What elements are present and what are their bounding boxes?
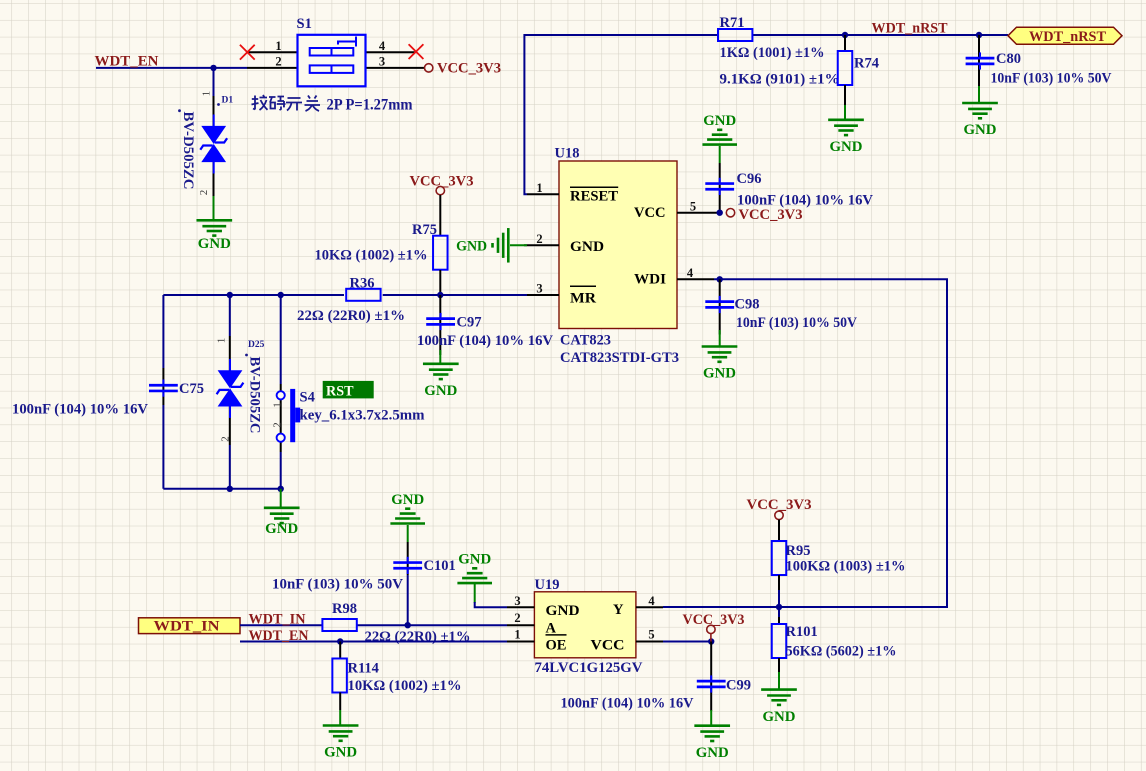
IC U19 body: [534, 592, 636, 658]
junction at D25 top row: [227, 292, 233, 298]
S1 actuator: [338, 37, 356, 47]
svg-text:C101: C101: [424, 558, 456, 574]
svg-text:R114: R114: [348, 660, 379, 676]
resistor R75: [439, 195, 441, 236]
power port VCC_3V3 at U18 VCC: [726, 209, 734, 217]
ground below R114: [339, 710, 341, 725]
svg-text:C97: C97: [457, 315, 482, 331]
net label RST (green box): [323, 381, 374, 399]
key switch S4 plunger: [290, 389, 295, 442]
junction at C101 bottom: [405, 622, 411, 628]
svg-text:100nF (104) 10% 16V: 100nF (104) 10% 16V: [12, 402, 149, 418]
svg-text:2: 2: [272, 422, 284, 428]
svg-text:WDT_EN: WDT_EN: [95, 54, 160, 70]
resistor R71: [718, 29, 752, 41]
ground below C80: [978, 86, 980, 103]
switch S1 body: [298, 35, 366, 87]
junction at WDT_EN/D1: [210, 65, 216, 71]
wire WDT_EN horizontal: [96, 67, 247, 69]
svg-text:9.1KΩ (9101) ±1%: 9.1KΩ (9101) ±1%: [720, 71, 840, 87]
capacitor C96: [705, 178, 734, 195]
svg-text:22Ω (22R0) ±1%: 22Ω (22R0) ±1%: [297, 308, 405, 324]
U18 pin4 WDI: [677, 278, 714, 280]
left rail with C75: [162, 295, 164, 368]
U18 pin1 RESET: [527, 193, 559, 195]
diode D1 pin 1 lead: [213, 96, 215, 126]
ground below R101: [778, 672, 780, 689]
svg-text:74LVC1G125GV: 74LVC1G125GV: [535, 660, 644, 676]
svg-text:D25: D25: [248, 340, 265, 350]
svg-text:GND: GND: [546, 603, 580, 619]
svg-text:BV-D505ZC: BV-D505ZC: [180, 112, 196, 190]
key switch S4 contact 2: [277, 434, 285, 442]
junction at S4 top row: [278, 292, 284, 298]
key switch S4 contact 1: [277, 391, 285, 399]
S1 slider 2: [310, 65, 354, 73]
S4 rail: [280, 295, 282, 384]
svg-text:RST: RST: [326, 384, 354, 400]
IC U18 body: [559, 161, 677, 329]
svg-text:10KΩ (1002) ±1%: 10KΩ (1002) ±1%: [348, 678, 462, 694]
svg-text:Y: Y: [613, 602, 624, 618]
svg-text:RESET: RESET: [570, 189, 618, 205]
ground above C101: [390, 492, 425, 524]
svg-text:100KΩ (1003) ±1%: 100KΩ (1003) ±1%: [786, 558, 906, 574]
svg-text:5: 5: [690, 199, 696, 213]
S1 caption chinese 拨码开关: [252, 95, 321, 111]
svg-text:GND: GND: [570, 239, 604, 255]
capacitor C99: [710, 642, 712, 712]
svg-text:4: 4: [687, 266, 694, 280]
wire D1 to ground: [213, 196, 215, 220]
resistor R74: [844, 35, 846, 51]
svg-text:R95: R95: [786, 543, 811, 559]
wire R71 right to port: [752, 34, 1008, 36]
resistor R98: [322, 619, 356, 631]
svg-text:MR: MR: [570, 291, 597, 307]
bottom wire of MR branch: [163, 488, 280, 490]
resistor R36: [346, 289, 380, 301]
svg-text:1: 1: [514, 628, 520, 642]
svg-text:R98: R98: [332, 601, 357, 617]
svg-text:2: 2: [219, 436, 231, 442]
svg-text:56KΩ (5602) ±1%: 56KΩ (5602) ±1%: [786, 643, 897, 659]
junction at C80: [976, 32, 982, 38]
svg-text:D1: D1: [222, 96, 234, 106]
junction at R114: [337, 638, 343, 644]
svg-text:U18: U18: [555, 146, 580, 162]
svg-text:1: 1: [216, 338, 228, 344]
diode D1 pin 2 lead: [213, 162, 215, 198]
ground at U18 pin2: [510, 244, 527, 246]
svg-text:OE: OE: [546, 638, 567, 654]
svg-text:R101: R101: [786, 624, 818, 640]
junction R75/C97 at MR row: [437, 292, 443, 298]
svg-text:R75: R75: [412, 222, 437, 238]
TVS diode D1: [200, 115, 227, 174]
junction at U18 WDI: [717, 276, 723, 282]
wire WDI long right and down to divider: [663, 279, 947, 607]
U18 pin3 MR: [527, 294, 559, 296]
capacitor C75: [149, 380, 178, 397]
ground below R74: [828, 120, 864, 155]
wire to D1: [213, 68, 215, 96]
resistor R101: [778, 607, 780, 617]
svg-text:2: 2: [198, 190, 210, 196]
svg-text:C99: C99: [726, 678, 751, 694]
U18 pin2 GND: [524, 244, 559, 246]
svg-text:R71: R71: [720, 15, 745, 31]
svg-text:WDT_EN: WDT_EN: [249, 628, 310, 644]
wire row MR net: [163, 294, 344, 296]
no-ERC cross on S1 pin1: [240, 45, 255, 60]
svg-text:R36: R36: [350, 276, 375, 292]
svg-text:2P P=1.27mm: 2P P=1.27mm: [327, 96, 413, 113]
svg-text:VCC: VCC: [591, 638, 625, 654]
ground below C99: [710, 710, 712, 725]
capacitor C101: [407, 525, 409, 542]
svg-text:2: 2: [536, 232, 542, 246]
svg-text:1: 1: [200, 91, 212, 97]
switch S1 pin4 lead: [366, 51, 415, 53]
svg-text:4: 4: [379, 39, 386, 53]
capacitor C97: [439, 295, 441, 355]
svg-text:C96: C96: [737, 171, 762, 187]
C96 lead from ground: [719, 146, 721, 163]
ground below C98: [719, 330, 721, 346]
svg-text:GND: GND: [198, 236, 231, 252]
svg-text:4: 4: [648, 594, 655, 608]
port WDT_nRST: [1008, 27, 1122, 44]
R74 lead to ground: [844, 85, 846, 105]
switch S1 pin2 lead: [247, 67, 298, 69]
power port VCC_3V3 at S1 pin3: [425, 64, 433, 72]
svg-text:S1: S1: [297, 16, 312, 32]
svg-text:WDT_nRST: WDT_nRST: [872, 20, 948, 36]
svg-text:VCC_3V3: VCC_3V3: [739, 207, 803, 223]
ground above U19 pin3: [457, 551, 492, 583]
svg-text:10nF (103) 10% 50V: 10nF (103) 10% 50V: [736, 315, 857, 331]
junction bottom D25: [227, 486, 233, 492]
svg-text:CAT823STDI-GT3: CAT823STDI-GT3: [560, 350, 679, 366]
wire WDT_IN row: [240, 624, 322, 626]
svg-text:WDI: WDI: [634, 271, 666, 287]
resistor R95: [778, 520, 780, 542]
svg-text:BV-D505ZC: BV-D505ZC: [247, 357, 263, 434]
svg-text:GND: GND: [265, 521, 298, 537]
capacitor C98: [719, 279, 721, 334]
U19 pin5 VCC: [636, 641, 663, 643]
svg-text:key_6.1x3.7x2.5mm: key_6.1x3.7x2.5mm: [300, 408, 425, 424]
U19 pin4 Y: [636, 606, 663, 608]
svg-text:R74: R74: [854, 56, 879, 72]
ground below S4 rail: [280, 489, 282, 507]
svg-text:2: 2: [275, 55, 281, 69]
wire from ground to U19 pin3: [474, 584, 476, 603]
svg-text:10KΩ (1002) ±1%: 10KΩ (1002) ±1%: [315, 248, 428, 264]
U18 pin5 VCC: [677, 212, 717, 214]
svg-text:10nF (103) 10% 50V: 10nF (103) 10% 50V: [991, 71, 1112, 87]
svg-text:C98: C98: [735, 296, 760, 312]
ground below D1: [196, 220, 232, 235]
U19 pin2 A: [507, 624, 534, 626]
svg-text:WDT_IN: WDT_IN: [249, 612, 307, 628]
svg-text:100nF (104) 10% 16V: 100nF (104) 10% 16V: [417, 333, 554, 349]
svg-text:C80: C80: [996, 51, 1021, 67]
wire top long: U18 RESET up and across to port: [524, 35, 718, 194]
svg-text:WDT_nRST: WDT_nRST: [1029, 29, 1106, 45]
svg-text:1KΩ (1001) ±1%: 1KΩ (1001) ±1%: [720, 45, 825, 61]
wire WDT_EN row: [240, 641, 507, 643]
svg-text:U19: U19: [535, 577, 560, 593]
svg-text:C75: C75: [179, 381, 204, 397]
junction at U19 VCC: [708, 638, 714, 644]
switch S1 pin1 lead: [248, 51, 298, 53]
junction at U18 VCC: [717, 210, 723, 216]
wire U19 VCC to C99: [663, 641, 711, 643]
capacitor C80: [978, 35, 980, 87]
no-ERC cross on S1 pin4: [409, 44, 424, 59]
U19 pin3 GND: [507, 606, 534, 608]
svg-text:WDT_IN: WDT_IN: [154, 619, 221, 635]
junction at R74: [842, 32, 848, 38]
svg-text:1: 1: [272, 402, 284, 408]
svg-text:2: 2: [514, 611, 520, 625]
svg-text:VCC_3V3: VCC_3V3: [437, 61, 501, 77]
svg-text:100nF (104) 10% 16V: 100nF (104) 10% 16V: [561, 696, 695, 712]
svg-text:3: 3: [379, 55, 385, 69]
svg-text:1: 1: [536, 181, 542, 195]
svg-text:S4: S4: [300, 389, 315, 405]
switch S1 pin3 lead: [366, 67, 425, 69]
TVS diode D25: [217, 359, 244, 418]
ground below C97: [439, 350, 441, 363]
ground above C96: [702, 113, 737, 145]
svg-text:100nF (104) 10% 16V: 100nF (104) 10% 16V: [737, 193, 874, 209]
svg-text:3: 3: [514, 594, 520, 608]
port WDT_IN: [139, 618, 241, 634]
svg-text:3: 3: [536, 282, 542, 296]
U19 pin1 OE: [507, 641, 534, 643]
svg-text:5: 5: [648, 628, 654, 642]
junction bottom S4: [278, 486, 284, 492]
svg-text:10nF (103) 10% 50V: 10nF (103) 10% 50V: [272, 576, 404, 592]
svg-text:VCC: VCC: [634, 205, 666, 221]
S1 slider 1: [310, 48, 354, 56]
D25 rail: [229, 295, 231, 336]
junction at divider: [776, 604, 782, 610]
svg-text:1: 1: [275, 39, 281, 53]
svg-text:CAT823: CAT823: [560, 333, 611, 349]
resistor R114: [339, 642, 341, 660]
